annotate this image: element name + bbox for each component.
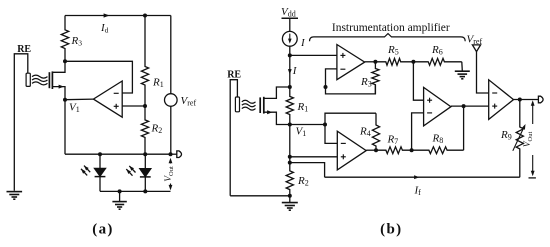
ground bottom (a)	[112, 191, 126, 209]
wire drain connection	[264, 87, 290, 98]
wire V1 to splitter node	[290, 124, 325, 126]
MOSFET M2 channel bar	[263, 97, 265, 114]
svg-text:Vref: Vref	[467, 34, 483, 47]
caption (a)	[92, 222, 113, 238]
node drain junction (b)	[288, 85, 292, 89]
svg-text:Vref: Vref	[181, 95, 197, 108]
current arrow I	[288, 69, 292, 74]
op-amp A1	[337, 45, 365, 80]
MOSFET M2 gate bar	[259, 97, 261, 113]
svg-text:VOut: VOut	[523, 132, 534, 148]
ground below R2	[282, 196, 298, 210]
wire current source to node	[289, 46, 291, 55]
label I drain	[292, 65, 298, 77]
wire A1 output	[365, 61, 376, 63]
op-amp U1	[93, 81, 122, 117]
wire lower rail (a)	[100, 190, 171, 192]
label R6	[431, 44, 443, 57]
svg-text:R4: R4	[359, 126, 371, 139]
electrode plate	[26, 73, 30, 86]
wire A1 inverting input	[326, 69, 376, 94]
node ground junction (b)	[288, 194, 292, 198]
resistor R4	[372, 113, 379, 150]
svg-text:R3: R3	[360, 76, 372, 89]
svg-text:Instrumentation amplifier: Instrumentation amplifier	[332, 22, 450, 34]
resistor R3	[61, 16, 68, 62]
wire R3 node to op-amp inverting input	[65, 61, 132, 93]
svg-text:R5: R5	[387, 44, 399, 57]
R9 wiper arrow	[513, 124, 526, 151]
svg-text:R2: R2	[151, 123, 163, 136]
LED D1	[94, 154, 106, 191]
terminal V_out (a)	[171, 151, 182, 158]
wire RE loop	[14, 54, 27, 191]
label V_ref	[181, 95, 197, 108]
node R7-R8 junction	[410, 148, 414, 152]
wire drain branch vertical	[289, 55, 291, 87]
label V_dd	[281, 6, 296, 19]
capacitive coupling squiggles	[32, 75, 48, 85]
label R1 (b)	[297, 101, 309, 114]
label R9	[500, 129, 512, 142]
MOSFET M1 drain wire	[52, 61, 65, 72]
node A3 output	[518, 98, 522, 102]
brace instrumentation amplifier	[310, 34, 466, 42]
op-amp U1 noninverting input wire	[122, 105, 145, 107]
LED D1 emission arrows	[81, 166, 90, 176]
wire top rail (a)	[65, 15, 171, 17]
node R1-R2 junction	[143, 104, 147, 108]
current arrow I_d	[104, 13, 110, 17]
resistor R5	[375, 58, 413, 65]
node LED D1 anode	[98, 152, 102, 156]
resistor R6	[413, 58, 461, 65]
label V1 (b)	[296, 126, 307, 139]
label R3	[71, 35, 83, 48]
node top rail R1 junction	[143, 14, 147, 18]
wire R2 bottom to RE	[230, 195, 290, 197]
node LED D2 cathode	[143, 189, 147, 193]
wire A2 output to A3	[451, 105, 489, 107]
op-amp A4 output wire	[366, 149, 376, 151]
power rail V_dd	[282, 18, 299, 31]
resistor R1 (b)	[286, 87, 293, 125]
ground R6	[455, 62, 470, 79]
wire A2 inverting input	[412, 113, 424, 150]
node V_out terminal junction	[169, 152, 173, 156]
resistor R8	[412, 147, 464, 154]
svg-text:R1: R1	[297, 101, 309, 114]
electrode plate (b)	[235, 97, 239, 112]
label Instrumentation amplifier	[332, 22, 450, 34]
node V1 (b)	[288, 123, 292, 127]
op-amp U1 output wire	[65, 98, 93, 101]
svg-text:R6: R6	[431, 44, 443, 57]
svg-text:RE: RE	[227, 70, 241, 81]
label V_out (a)	[164, 166, 175, 182]
svg-text:VOut: VOut	[164, 166, 175, 182]
node I distribution	[288, 53, 292, 57]
resistor R2 (b)	[286, 163, 293, 196]
terminal V_ref	[472, 45, 480, 52]
node A1 output	[373, 60, 377, 64]
node A4 noninverting junction	[288, 155, 292, 159]
wire bottom rail I_f	[325, 176, 520, 178]
MOSFET M1 gate bar	[48, 72, 50, 88]
wire V1 vertical to bottom rail	[64, 100, 66, 155]
node R2-LED D2 junction	[143, 152, 147, 156]
LED D2 emission arrows	[126, 166, 135, 176]
label R3 (b)	[360, 76, 372, 89]
node drain-R3 junction	[63, 59, 67, 63]
svg-text:V1: V1	[296, 126, 307, 139]
label I source	[300, 37, 306, 49]
wire A4 noninverting input	[290, 156, 338, 158]
op-amp A2	[424, 87, 451, 126]
MOSFET M1 source wire	[52, 85, 65, 100]
svg-text:R1: R1	[152, 77, 164, 90]
resistor R3 (b)	[372, 62, 379, 94]
wire feedback to bottom rail	[290, 163, 325, 178]
label I_d	[100, 22, 109, 35]
wire R5-R6 node to A2 noninverting input	[413, 62, 423, 100]
label R4	[359, 126, 371, 139]
label I_f	[414, 185, 422, 198]
wire RE loop (b)	[230, 80, 237, 196]
node R5-R6 junction	[411, 60, 415, 64]
label R2	[151, 123, 163, 136]
caption (b)	[380, 222, 402, 238]
wire V1 vertical (b)	[289, 125, 291, 163]
wire R8 to A2 output node	[463, 106, 465, 150]
terminal I_out (b)	[538, 96, 543, 103]
label R2 (b)	[297, 175, 309, 188]
ground left (a)	[7, 192, 23, 200]
resistor R2	[141, 106, 148, 154]
svg-text:R7: R7	[387, 134, 399, 147]
node feedback junction	[288, 161, 292, 165]
resistor R9	[516, 100, 523, 178]
label V_ref (b)	[467, 34, 483, 47]
resistor R7	[376, 147, 412, 154]
label V1	[69, 102, 80, 115]
label R1	[152, 77, 164, 90]
V_out measurement arrows (b)	[529, 100, 536, 178]
MOSFET M2 source wire	[264, 110, 290, 124]
electrode RE label (b)	[227, 70, 241, 81]
op-amp A4	[337, 131, 366, 170]
wire V_ref branch top	[170, 16, 172, 94]
node A1 feedback junction	[324, 85, 328, 89]
voltage source V_ref	[165, 94, 178, 107]
label R7	[387, 134, 399, 147]
wire node to A1 noninverting input	[290, 54, 337, 56]
svg-text:Id: Id	[100, 22, 109, 35]
svg-text:(a): (a)	[92, 222, 113, 238]
svg-text:R8: R8	[432, 133, 444, 146]
capacitive coupling squiggles (b)	[242, 100, 256, 110]
node A2 output	[462, 104, 466, 108]
wire splitter to A4 inverting input	[325, 125, 337, 144]
LED D2	[140, 154, 152, 191]
label R8	[432, 133, 444, 146]
current source I1	[282, 31, 297, 46]
wire A3 inverting input to V_ref	[477, 52, 489, 93]
svg-text:Vdd: Vdd	[281, 6, 296, 19]
wire V_ref branch bottom	[170, 106, 172, 154]
svg-text:R3: R3	[71, 35, 83, 48]
svg-text:I: I	[300, 37, 306, 49]
MOSFET M1 channel bar	[51, 71, 53, 89]
wire bottom rail (a)	[65, 153, 171, 155]
current arrow I_f	[414, 175, 419, 179]
svg-text:(b): (b)	[380, 222, 402, 238]
node ground junction (a)	[118, 189, 122, 193]
node R4-A4 output junction	[374, 148, 378, 152]
label V_out (b)	[523, 132, 534, 148]
node V1	[63, 98, 67, 102]
svg-text:V1: V1	[69, 102, 80, 115]
node splitter	[323, 123, 327, 127]
svg-text:R2: R2	[297, 175, 309, 188]
svg-text:If: If	[414, 185, 422, 198]
wire A3 output	[514, 99, 539, 101]
op-amp A3	[489, 80, 514, 120]
electrode RE label	[17, 44, 31, 55]
label R5	[387, 44, 399, 57]
resistor R1	[141, 16, 148, 107]
svg-text:I: I	[292, 65, 298, 77]
svg-text:R9: R9	[500, 129, 512, 142]
V_out measurement arrows (a)	[169, 158, 173, 191]
wire splitter to R4 top	[325, 113, 376, 124]
